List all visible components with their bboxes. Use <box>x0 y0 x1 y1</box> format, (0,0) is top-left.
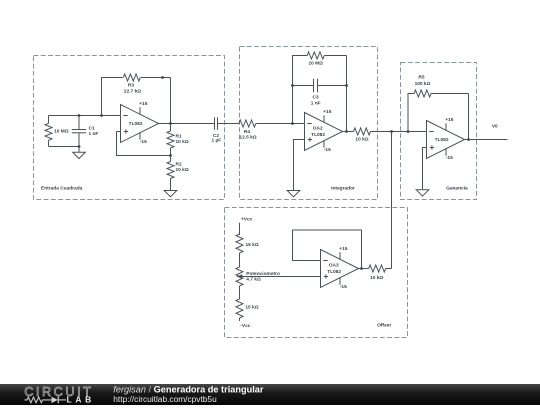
junction R3 right <box>161 76 164 79</box>
svg-text:-15: -15 <box>324 147 331 153</box>
op-amp U2 TL082 <box>427 121 465 159</box>
wire C2 to R4 <box>218 123 239 125</box>
svg-text:Offset: Offset <box>377 323 391 329</box>
potentiometer 4.7k <box>236 267 243 286</box>
svg-text:http://circuitlab.com/cpvtb5u: http://circuitlab.com/cpvtb5u <box>113 394 217 404</box>
svg-text:TL082: TL082 <box>129 121 143 127</box>
junction C3 left <box>291 84 294 87</box>
svg-text:+15: +15 <box>339 246 347 252</box>
resistor 15k upper <box>236 234 243 253</box>
svg-text:R5: R5 <box>418 75 424 81</box>
ground below gain op-amp <box>416 190 429 196</box>
wire feedback loop 10M <box>293 56 308 124</box>
svg-text:+15: +15 <box>139 101 147 107</box>
wire OA2 output <box>343 131 354 133</box>
wire wiper to OA3 <box>242 276 321 278</box>
svg-text:-Vcc: -Vcc <box>240 323 250 329</box>
junction OA3 output <box>360 267 363 270</box>
svg-text:100 kΩ: 100 kΩ <box>415 81 431 87</box>
wire offset feed up <box>391 132 393 269</box>
svg-text:TL082: TL082 <box>311 132 325 138</box>
op-amp OA2 TL082 <box>305 113 343 151</box>
capacitor C2 <box>214 117 216 129</box>
svg-text:R1: R1 <box>176 134 182 140</box>
svg-text:22.7 kΩ: 22.7 kΩ <box>124 89 141 95</box>
svg-text:+Vcc: +Vcc <box>241 217 253 223</box>
svg-text:10 MΩ: 10 MΩ <box>308 60 323 66</box>
svg-text:R2: R2 <box>176 161 182 167</box>
wire OA3 feedback loop <box>293 230 362 269</box>
wire C3 rail <box>293 85 314 87</box>
wire R5 loop <box>408 94 414 132</box>
svg-text:C1: C1 <box>89 126 95 132</box>
svg-text:1 nF: 1 nF <box>311 100 321 106</box>
resistor R3 22.7k <box>123 74 140 81</box>
potentiometer wiper arrow <box>236 274 242 279</box>
junction C1 top <box>78 114 81 117</box>
svg-text:-15: -15 <box>140 139 147 145</box>
svg-text:1 nF: 1 nF <box>89 131 99 137</box>
svg-text:OA2: OA2 <box>313 126 323 132</box>
svg-text:LAB: LAB <box>67 395 95 405</box>
block Ganancia dashed box <box>401 63 477 200</box>
junction C3 right <box>345 84 348 87</box>
svg-text:-15: -15 <box>340 284 347 290</box>
resistor R5 100k <box>414 90 431 97</box>
junction offset feed <box>390 130 393 133</box>
svg-text:15 kΩ: 15 kΩ <box>245 305 258 311</box>
logo resistor zigzag <box>25 397 52 403</box>
svg-text:OA3: OA3 <box>329 263 339 269</box>
wire OA3 output <box>359 268 369 270</box>
svg-text:R3: R3 <box>128 83 134 89</box>
block Offset dashed box <box>225 208 408 338</box>
capacitor C3 <box>313 79 315 93</box>
svg-text:15 kΩ: 15 kΩ <box>246 242 259 248</box>
resistor R4 12.5k <box>239 120 256 127</box>
wire bottom rail <box>49 146 80 148</box>
wire output rail <box>159 123 215 125</box>
resistor 10k output <box>354 128 371 135</box>
wire from +Vcc <box>239 223 241 235</box>
svg-text:10 kΩ: 10 kΩ <box>176 139 189 145</box>
junction C1 bottom <box>78 145 81 148</box>
svg-text:Ganancia: Ganancia <box>446 186 468 192</box>
wire +in feedback <box>117 132 171 156</box>
resistor 10k offset <box>369 265 386 272</box>
logo diode <box>52 397 58 403</box>
resistor R1 10k <box>170 124 172 132</box>
resistor 10 MOhm vertical <box>48 116 50 124</box>
svg-text:10 kΩ: 10 kΩ <box>355 137 368 143</box>
op-amp OA3 TL082 <box>321 250 359 288</box>
svg-text:4.7 kΩ: 4.7 kΩ <box>246 277 261 283</box>
svg-text:-15: -15 <box>446 155 453 161</box>
ground below C1 <box>78 147 80 153</box>
resistor 10 MOhm feedback <box>307 52 324 59</box>
block Entrada Cuadrada dashed box <box>34 56 225 200</box>
wire R3 feedback loop <box>102 78 123 116</box>
svg-text:12.5 kΩ: 12.5 kΩ <box>239 135 256 141</box>
svg-text:10 MΩ: 10 MΩ <box>54 128 69 134</box>
resistor R1 zigzag <box>167 131 174 148</box>
junction R3 leg <box>100 114 103 117</box>
svg-text:Entrada Cuadrada: Entrada Cuadrada <box>41 186 83 192</box>
svg-text:TL082: TL082 <box>327 269 341 275</box>
svg-text:R4: R4 <box>244 129 250 135</box>
svg-text:TL082: TL082 <box>435 137 449 143</box>
svg-text:+15: +15 <box>323 109 331 115</box>
resistor R2 10k <box>170 156 172 162</box>
capacitor C1 <box>78 116 80 130</box>
svg-text:10 kΩ: 10 kΩ <box>370 275 383 281</box>
junction OA2 output <box>345 130 348 133</box>
wire node A input rail <box>49 115 121 117</box>
wire +in to ground <box>423 148 427 190</box>
svg-text:C3: C3 <box>313 95 319 101</box>
resistor 15k lower <box>236 299 243 318</box>
junction gain output <box>467 138 470 141</box>
junction R5 tap <box>407 130 410 133</box>
junction output node <box>169 122 172 125</box>
junction R1 R2 <box>169 154 172 157</box>
ground below OA2 <box>287 191 300 197</box>
block Integrador dashed box <box>240 47 378 200</box>
svg-text:10 kΩ: 10 kΩ <box>176 167 189 173</box>
svg-text:+15: +15 <box>445 117 453 123</box>
svg-text:V0: V0 <box>492 123 498 129</box>
svg-text:1 µF: 1 µF <box>212 138 222 144</box>
wire +in to ground <box>294 140 305 191</box>
ground below R2 <box>164 191 177 197</box>
wire V0 output <box>465 139 508 141</box>
wire R4 to OA2 <box>256 123 305 125</box>
op-amp U1 TL082 <box>121 105 159 143</box>
junction feedback tap <box>291 122 294 125</box>
svg-text:Integrador: Integrador <box>331 186 355 192</box>
